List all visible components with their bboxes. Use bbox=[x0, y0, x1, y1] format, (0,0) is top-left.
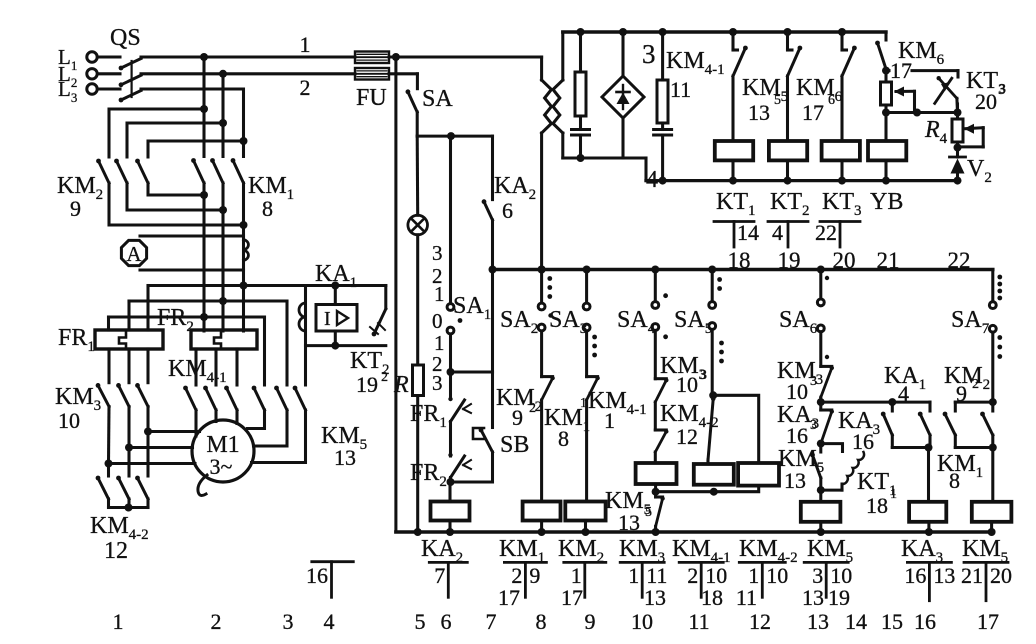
contactor KM3 pole 3 bbox=[135, 383, 148, 407]
label SA7 bbox=[951, 307, 990, 337]
svg-text:8: 8 bbox=[536, 609, 547, 634]
contactor KM4-2 pole 3 bbox=[135, 476, 148, 499]
wire coil bottom bar bbox=[656, 486, 759, 496]
label 19 bbox=[356, 370, 388, 397]
contact KA3 NC sa6 bbox=[821, 409, 834, 443]
column number 4 bbox=[324, 609, 335, 634]
label 3 bbox=[642, 39, 656, 69]
disconnect switch QS bbox=[98, 57, 142, 102]
svg-text:20: 20 bbox=[975, 89, 997, 114]
wire KM2 top feed 1 bbox=[109, 109, 204, 157]
label KM2 bbox=[57, 173, 103, 203]
contactor KM4-1 pole 1 bbox=[183, 386, 196, 410]
control rail top bbox=[563, 28, 886, 36]
svg-text:9: 9 bbox=[70, 196, 81, 221]
coil KM1b bbox=[909, 502, 946, 536]
label KA1 bbox=[315, 261, 357, 291]
label 1 bbox=[300, 32, 311, 57]
svg-text:13: 13 bbox=[748, 100, 770, 125]
wire primary to rail bbox=[538, 133, 546, 274]
svg-text:22: 22 bbox=[815, 220, 837, 245]
label KA3 sa6 bbox=[777, 402, 819, 448]
label YB coil bbox=[870, 189, 903, 215]
svg-text:10: 10 bbox=[58, 408, 80, 433]
wire KM3 out 1 bbox=[144, 407, 152, 436]
contact KA3 blade a bbox=[881, 402, 893, 447]
label KM2 NC bbox=[496, 385, 542, 430]
svg-text:KA2: KA2 bbox=[494, 173, 536, 203]
label SA3 bbox=[549, 307, 587, 337]
label SA2 bbox=[500, 307, 538, 337]
contact KM1 NC bbox=[587, 376, 600, 400]
table KM5 bbox=[802, 562, 852, 610]
coil KM4 mid bbox=[694, 460, 734, 485]
wire right drop x287 bbox=[285, 301, 288, 385]
wire KM4-2 feed 2 bbox=[127, 448, 130, 477]
label SA1 bbox=[453, 293, 491, 323]
svg-text:17: 17 bbox=[498, 585, 520, 610]
SA1 position 1b bbox=[434, 331, 445, 355]
wire R to rail bbox=[414, 396, 422, 537]
wire SA1 out bbox=[447, 334, 455, 376]
svg-text:14: 14 bbox=[737, 220, 759, 245]
svg-text:1: 1 bbox=[300, 32, 311, 57]
wire SA top bbox=[416, 74, 419, 89]
svg-text:QS: QS bbox=[110, 25, 141, 51]
contact KM4-2 sa5 bbox=[708, 397, 715, 460]
wire KM2 top feed 3 bbox=[148, 141, 244, 157]
pot R4 wiper bbox=[958, 124, 984, 147]
svg-text:R: R bbox=[393, 372, 409, 398]
wire right drop x264 bbox=[263, 317, 266, 385]
node dot line2 x223 bbox=[219, 70, 227, 78]
label KM1 bbox=[248, 173, 294, 203]
svg-text:KT1: KT1 bbox=[716, 189, 756, 219]
label KM4-1 table bbox=[672, 536, 731, 566]
contactor KM4-1 pole 3 bbox=[224, 386, 237, 410]
contact KM5 below bbox=[652, 492, 665, 536]
wire sa5 right bbox=[713, 395, 759, 463]
SA1 position 2b bbox=[432, 352, 443, 376]
control bottom rail bbox=[396, 530, 993, 534]
contact KM6 brake bbox=[875, 32, 890, 75]
contact FR2 NC bbox=[448, 453, 471, 478]
svg-text:2: 2 bbox=[972, 377, 979, 392]
contactor bank right pole 3 bbox=[293, 386, 306, 410]
label KM4-1 bank bbox=[168, 356, 227, 386]
svg-text:2: 2 bbox=[211, 609, 222, 634]
wire KM4-1 to motor 1 bbox=[194, 410, 197, 436]
wire KM3 out 2 bbox=[125, 407, 133, 452]
svg-text:KM1: KM1 bbox=[937, 451, 983, 481]
svg-text:8: 8 bbox=[262, 196, 273, 221]
label KA2 bbox=[494, 173, 536, 203]
SA1 position 0 bbox=[432, 309, 443, 333]
svg-text:18: 18 bbox=[866, 493, 888, 518]
node SA5 bbox=[708, 266, 716, 274]
svg-text:5: 5 bbox=[415, 609, 426, 634]
coil YB bbox=[868, 141, 906, 181]
svg-text:1: 1 bbox=[890, 487, 897, 502]
svg-text:V2: V2 bbox=[967, 156, 992, 186]
wire line1 drop bbox=[540, 57, 543, 80]
wire ka1 feed bbox=[821, 398, 930, 406]
wire ka1 bar bbox=[892, 444, 932, 452]
wire KM2 bottom cross 3 bbox=[148, 183, 204, 195]
main vertical phase1 upper bbox=[202, 57, 205, 157]
indicator lamp HL bbox=[408, 215, 428, 235]
svg-text:14: 14 bbox=[845, 609, 867, 634]
contact KM5 NC sa6 bbox=[810, 444, 821, 491]
main vertical phase3 lower bbox=[240, 137, 248, 331]
wire SB out bbox=[451, 452, 493, 482]
wire KA1 right leg bbox=[384, 286, 387, 309]
label SB bbox=[500, 432, 529, 458]
table KA3 bbox=[904, 562, 955, 600]
label SA bbox=[422, 86, 453, 112]
motor shaft brush bbox=[198, 475, 207, 495]
svg-text:1: 1 bbox=[628, 563, 639, 588]
label KT1 coil bbox=[716, 189, 756, 219]
svg-text:17: 17 bbox=[802, 100, 824, 125]
wire line1 to node bbox=[389, 53, 542, 61]
wire motor right 1 bbox=[248, 410, 265, 429]
svg-text:9: 9 bbox=[529, 563, 540, 588]
svg-text:13: 13 bbox=[802, 585, 824, 610]
wire KM2 top feed 2 bbox=[127, 123, 223, 157]
svg-text:KM4-1: KM4-1 bbox=[168, 356, 227, 386]
wire KM3 out 3 bbox=[105, 407, 113, 468]
label KM5 below bbox=[605, 488, 652, 535]
control rail left vertical bbox=[394, 57, 397, 532]
diode V2 bbox=[950, 148, 966, 181]
contactor KM1 pole 3 bbox=[231, 158, 244, 183]
svg-text:16: 16 bbox=[786, 423, 808, 448]
svg-text:FR2: FR2 bbox=[410, 460, 447, 490]
coil KM5 mid bbox=[738, 463, 779, 486]
node sa6 tap bbox=[817, 397, 825, 410]
label KT3 coil bbox=[822, 189, 862, 219]
svg-text:10: 10 bbox=[631, 609, 653, 634]
pushbutton SB bbox=[473, 428, 493, 452]
label KA3 pair bbox=[838, 408, 880, 454]
svg-text:SA2: SA2 bbox=[500, 307, 538, 337]
selector SA3 bbox=[583, 270, 597, 377]
label KM4-1 mid bbox=[588, 388, 647, 433]
svg-text:3: 3 bbox=[810, 418, 817, 433]
filter capacitor 2 bbox=[654, 130, 672, 181]
svg-text:3: 3 bbox=[642, 39, 656, 69]
svg-text:I: I bbox=[324, 308, 331, 330]
svg-text:20: 20 bbox=[990, 563, 1012, 588]
wire to KM3 coil bbox=[654, 452, 657, 463]
node SA5 split bbox=[709, 391, 717, 399]
contactor KM4-2 pole 1 bbox=[96, 476, 109, 499]
contactor KM2 pole 1 bbox=[96, 159, 109, 183]
svg-text:3: 3 bbox=[810, 374, 817, 389]
column number 15 bbox=[881, 609, 903, 634]
contact KM2 blade a bbox=[943, 402, 956, 447]
column number 18 bbox=[728, 248, 751, 273]
svg-text:SA: SA bbox=[422, 86, 453, 112]
table KM1 bbox=[498, 562, 546, 610]
node sa6 low bbox=[817, 486, 825, 494]
svg-text:13: 13 bbox=[933, 563, 955, 588]
wire sa4 mid bbox=[654, 402, 657, 430]
main vertical phase2 lower bbox=[219, 119, 227, 331]
label KA3 table bbox=[901, 536, 943, 566]
label FR1 bbox=[58, 325, 95, 355]
wire phase1 tap y317 bbox=[109, 315, 265, 318]
column number 21 bbox=[877, 248, 900, 273]
coil KT1 bbox=[715, 141, 753, 181]
svg-text:9: 9 bbox=[512, 405, 523, 430]
svg-text:19: 19 bbox=[828, 585, 850, 610]
contactor KM4-1 pole 2 bbox=[203, 386, 216, 410]
wire KA2 branch lower bbox=[489, 220, 497, 372]
label KM1 table bbox=[499, 536, 545, 566]
wire FR2 out 2 bbox=[214, 349, 217, 385]
label R bbox=[393, 372, 409, 398]
column number 3 bbox=[283, 609, 294, 634]
contact feed KT1 bbox=[733, 32, 748, 141]
wire FR2 out 3 bbox=[235, 349, 238, 385]
svg-text:SA6: SA6 bbox=[779, 307, 818, 337]
wire FR1 feed 1 bbox=[146, 286, 149, 331]
wire KA1 bottom stub bbox=[331, 331, 339, 350]
column number 7 bbox=[486, 609, 497, 634]
selector SA2 bbox=[538, 270, 553, 377]
contact KA1 output bbox=[370, 309, 386, 336]
label KM2 pair bbox=[944, 363, 990, 406]
contact KM3 NC sa6 bbox=[821, 366, 834, 398]
column number 11 bbox=[688, 609, 709, 634]
wire km5b coil feed bbox=[991, 448, 994, 502]
svg-text:10: 10 bbox=[786, 379, 808, 404]
svg-text:5: 5 bbox=[645, 505, 652, 520]
svg-text:19: 19 bbox=[356, 372, 378, 397]
contactor KM2 pole 3 bbox=[135, 159, 148, 183]
svg-text:SA4: SA4 bbox=[617, 307, 656, 337]
wire KM4-1 to motor 2 bbox=[214, 410, 217, 422]
label 9 bbox=[70, 196, 81, 221]
wire KA2 branch upper bbox=[491, 136, 494, 200]
current transformer CT1 bbox=[244, 240, 249, 261]
label KM4-2 bank bbox=[90, 513, 149, 543]
main vertical phase1 lower bbox=[200, 105, 208, 331]
wire KM4-1 to motor 3 bbox=[235, 410, 238, 424]
coil KT3 bbox=[822, 141, 860, 181]
column number 22 bbox=[948, 248, 971, 273]
wire FR2 out bbox=[447, 478, 455, 487]
ammeter A bbox=[121, 240, 146, 266]
svg-text:20: 20 bbox=[833, 248, 856, 273]
svg-text:FR1: FR1 bbox=[58, 325, 95, 355]
wire KA2 coil bottom bbox=[446, 521, 454, 537]
selector SA1 moving dot bbox=[458, 318, 463, 323]
svg-text:15: 15 bbox=[881, 609, 903, 634]
svg-text:4: 4 bbox=[898, 381, 909, 406]
coil KM3 bbox=[636, 463, 677, 496]
wire KA1 bottom bar bbox=[306, 344, 386, 347]
terminal L3 bbox=[58, 77, 97, 105]
label KM6 contact bbox=[796, 75, 843, 125]
contactor bank right pole 1 bbox=[252, 386, 265, 410]
SA1 position 2a bbox=[432, 264, 443, 288]
svg-text:18: 18 bbox=[728, 248, 751, 273]
node SA6 bbox=[817, 266, 825, 274]
label KM1 right bbox=[937, 451, 983, 493]
wire YB feed bbox=[884, 113, 887, 142]
svg-text:KT3: KT3 bbox=[822, 189, 862, 219]
label KM3 bbox=[55, 384, 101, 414]
column number 8 bbox=[536, 609, 547, 634]
contact KA2 bbox=[482, 199, 493, 220]
svg-text:1: 1 bbox=[604, 408, 615, 433]
rectifier V1 bbox=[602, 32, 644, 158]
wire KA1 top stub bbox=[334, 286, 337, 305]
selector SA4 bbox=[652, 270, 668, 379]
svg-text:R4: R4 bbox=[924, 117, 948, 147]
label KM3 NC bbox=[660, 353, 707, 397]
wire motor right 2 bbox=[254, 410, 288, 446]
table 16/4 bbox=[306, 562, 353, 598]
svg-text:12: 12 bbox=[104, 538, 128, 564]
svg-text:21: 21 bbox=[961, 563, 983, 588]
wire SA out bbox=[416, 112, 419, 136]
label SA5 bbox=[674, 307, 712, 337]
node sa7 bbox=[989, 398, 997, 406]
label V2 bbox=[967, 156, 992, 186]
svg-text:3: 3 bbox=[432, 241, 443, 265]
svg-text:9: 9 bbox=[585, 609, 596, 634]
wire brake mid bbox=[882, 109, 962, 117]
label KM4-1 contact bbox=[666, 48, 725, 102]
contact feed KT3 bbox=[842, 32, 857, 141]
svg-text:FU: FU bbox=[356, 85, 387, 111]
column number 2 bbox=[211, 609, 222, 634]
label KM6 brake bbox=[898, 38, 945, 68]
label SA6 bbox=[779, 307, 818, 337]
svg-text:2: 2 bbox=[381, 370, 388, 385]
svg-text:10: 10 bbox=[676, 372, 698, 397]
svg-text:7: 7 bbox=[434, 563, 445, 588]
column number 1 bbox=[113, 609, 124, 634]
selector SA6 bbox=[817, 270, 829, 367]
label KT1 contact bbox=[857, 469, 897, 518]
svg-text:4: 4 bbox=[324, 609, 335, 634]
node sa6 mid bbox=[817, 440, 825, 448]
svg-text:17: 17 bbox=[561, 585, 583, 610]
svg-text:16: 16 bbox=[914, 609, 936, 634]
wire SA distribution bbox=[417, 132, 492, 140]
svg-text:11: 11 bbox=[688, 609, 709, 634]
contact KM3 NC sa4 bbox=[655, 378, 668, 402]
svg-text:13: 13 bbox=[618, 510, 640, 535]
contactor KM3 pole 1 bbox=[96, 383, 109, 407]
svg-text:2: 2 bbox=[300, 75, 311, 100]
svg-text:10: 10 bbox=[766, 563, 788, 588]
coil KA2 bbox=[431, 502, 470, 521]
label KT2 coil bbox=[770, 189, 810, 219]
terminal L2 bbox=[58, 62, 97, 90]
svg-text:0: 0 bbox=[432, 309, 443, 333]
wire ammeter bottom bbox=[140, 268, 244, 271]
label 4 bbox=[646, 167, 658, 193]
label KM3 table bbox=[619, 536, 665, 566]
thermal relay FR1 heater bbox=[95, 330, 163, 349]
svg-text:2: 2 bbox=[687, 563, 698, 588]
svg-text:SA7: SA7 bbox=[951, 307, 990, 337]
label FR2 contact bbox=[410, 460, 447, 490]
contact KT3 delayed bbox=[935, 76, 958, 113]
wire 17 link bbox=[886, 58, 958, 83]
svg-text:SA5: SA5 bbox=[674, 307, 712, 337]
svg-text:4: 4 bbox=[772, 220, 783, 245]
wire FR1 out 2 bbox=[127, 349, 130, 383]
wire L2 bus bbox=[141, 72, 355, 75]
svg-text:KM4-1: KM4-1 bbox=[588, 388, 647, 418]
wire SA1 to SB branch bbox=[451, 370, 493, 373]
contact KM4-2 NC sa4 bbox=[655, 429, 668, 452]
main vertical phase2 upper bbox=[221, 74, 224, 157]
svg-text:16: 16 bbox=[904, 563, 926, 588]
wire phase2 tap y301 bbox=[129, 299, 287, 302]
wire km2 pair feed bbox=[955, 401, 993, 404]
wire to KM1 coil bbox=[540, 400, 543, 502]
wire motor left 1 bbox=[148, 430, 200, 433]
wire FR1 feed 3 bbox=[107, 317, 110, 330]
contact FR1 NC bbox=[448, 397, 471, 422]
coil KM5b bbox=[801, 490, 841, 536]
wire FR2 out 1 bbox=[194, 349, 197, 385]
column number 9 bbox=[585, 609, 596, 634]
terminal L1 bbox=[58, 45, 97, 73]
control rail mid bbox=[493, 268, 993, 272]
label KM4-2 table bbox=[739, 536, 798, 566]
table KT3 bbox=[815, 220, 860, 247]
relay KA1 box bbox=[316, 305, 357, 332]
svg-text:8: 8 bbox=[949, 468, 960, 493]
column number 19 bbox=[778, 248, 801, 273]
label FU bbox=[356, 85, 387, 111]
wire lamp branch top bbox=[416, 136, 420, 215]
svg-text:3: 3 bbox=[432, 371, 443, 395]
contactor KM4-2 pole 2 bbox=[116, 476, 129, 499]
table KM2 bbox=[561, 562, 606, 610]
label KM1 NC bbox=[544, 396, 590, 451]
label KM5c table bbox=[962, 536, 1008, 566]
svg-text:6: 6 bbox=[441, 609, 452, 634]
selector SA1 contact bottom bbox=[447, 327, 454, 334]
table KM4-1 bbox=[679, 562, 727, 610]
svg-text:16: 16 bbox=[306, 563, 328, 588]
svg-text:22: 22 bbox=[948, 248, 971, 273]
svg-text:SB: SB bbox=[500, 432, 529, 458]
label FR1 contact bbox=[410, 401, 447, 431]
svg-text:12: 12 bbox=[749, 609, 771, 634]
svg-text:13: 13 bbox=[644, 585, 666, 610]
label KM5 sa6 bbox=[778, 446, 824, 493]
svg-text:SA3: SA3 bbox=[549, 307, 587, 337]
SA1 position 1a bbox=[434, 282, 445, 306]
svg-text:KM4-1: KM4-1 bbox=[666, 48, 725, 78]
svg-text:1: 1 bbox=[434, 282, 445, 306]
column number 16 bbox=[914, 609, 936, 634]
wire motor left 3 bbox=[109, 462, 196, 465]
svg-text:8: 8 bbox=[558, 426, 569, 451]
svg-text:A: A bbox=[126, 242, 142, 266]
